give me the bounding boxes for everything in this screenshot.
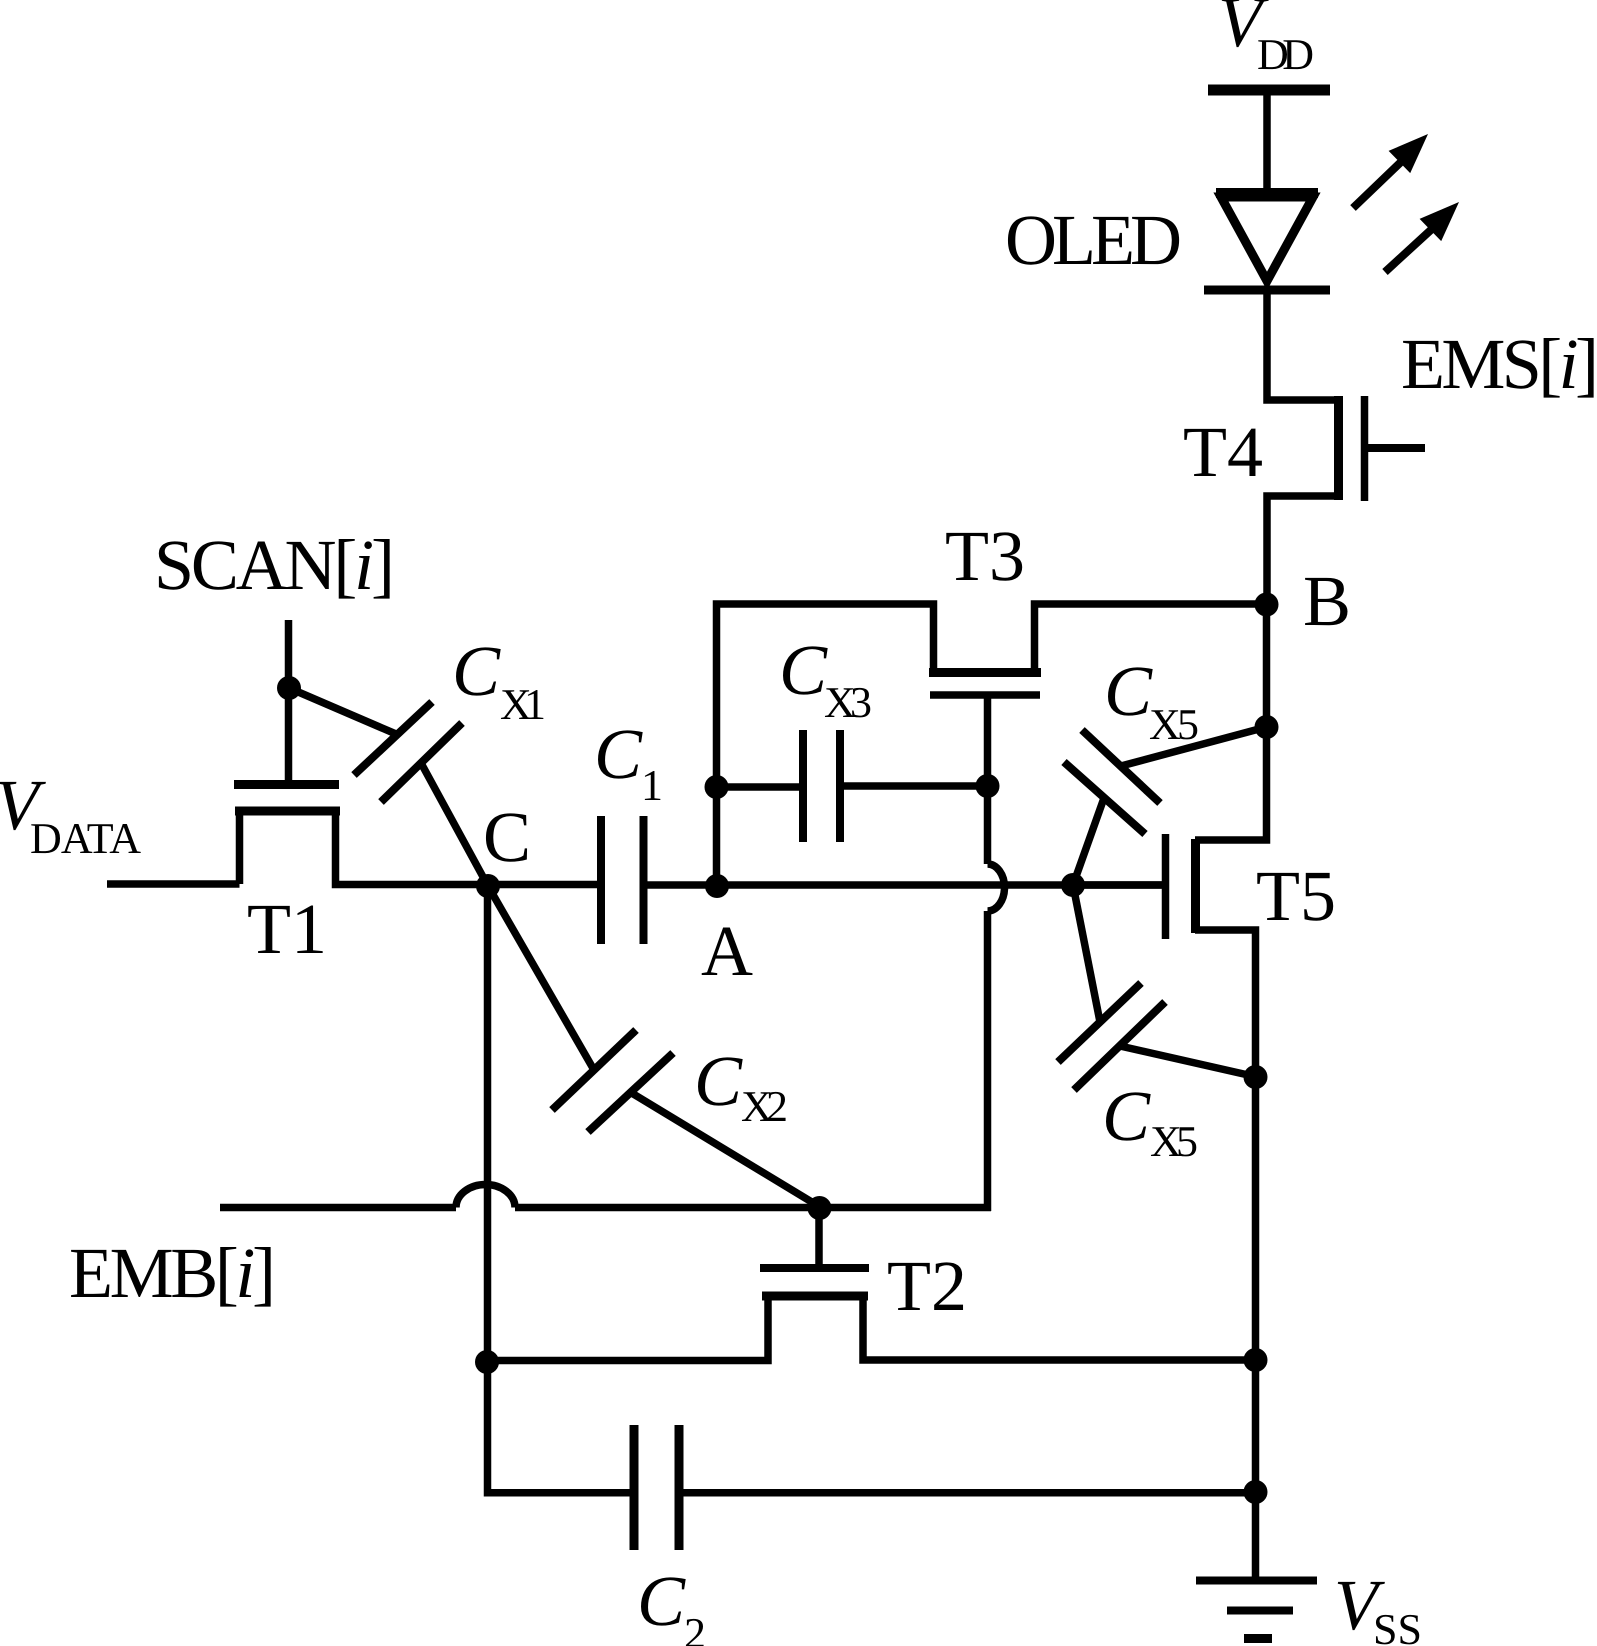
svg-text:C: C <box>694 1041 743 1121</box>
svg-text:T1: T1 <box>247 889 327 969</box>
junction dot lower CX5 tap <box>1244 1065 1268 1089</box>
capacitor CX5 lower plate 1 <box>1058 983 1141 1062</box>
svg-text:C: C <box>779 630 828 710</box>
ground symbol bottom bar <box>1244 1634 1272 1643</box>
svg-text:X5: X5 <box>1150 1117 1198 1166</box>
svg-text:T3: T3 <box>945 516 1025 596</box>
svg-text:C: C <box>637 1561 686 1641</box>
capacitor CX1 lead from SCAN dot <box>289 688 396 734</box>
light emission arrow 2 <box>1385 202 1459 272</box>
capacitor CX2 plate 1 <box>552 1030 636 1110</box>
T2 left arm wire to node C rail <box>487 1300 768 1361</box>
svg-text:X1: X1 <box>500 680 546 729</box>
capacitor CX3 left plate <box>799 730 807 842</box>
capacitor CX1 plate 1 <box>354 702 432 775</box>
CX1 lead to node C <box>421 763 488 886</box>
capacitor C2 right plate <box>675 1425 684 1550</box>
T5 gate lead <box>1073 881 1162 889</box>
T2 right arm wire to right rail <box>863 1300 1255 1360</box>
CX3 wire left <box>716 783 799 791</box>
CX5 upper label <box>1104 651 1199 749</box>
svg-text:T2: T2 <box>887 1246 967 1326</box>
CX2 label <box>694 1041 788 1131</box>
node A junction dot <box>705 874 729 898</box>
CX5 lower lead to right rail <box>1120 1046 1257 1077</box>
svg-text:C: C <box>483 797 531 877</box>
capacitor CX5 upper lead from B rail <box>1121 727 1267 766</box>
svg-text:DATA: DATA <box>30 814 141 863</box>
wire VDD to OLED anode <box>1263 95 1271 193</box>
svg-text:2: 2 <box>684 1609 706 1646</box>
transistor T4 gate bar <box>1361 396 1369 501</box>
capacitor C2 left plate <box>630 1425 639 1550</box>
wire node A up to T3 drain rail <box>717 604 934 886</box>
junction dot T2 row / rail <box>1244 1348 1268 1372</box>
T3 gate lead down with hop over bus <box>988 695 1005 1211</box>
capacitor CX3 right plate <box>836 730 844 842</box>
svg-text:SS: SS <box>1373 1605 1422 1646</box>
CX3 label <box>779 630 872 727</box>
main bus C1 to T5 gate <box>647 881 1162 889</box>
junction dot upper CX5 tap <box>1255 715 1279 739</box>
VDD power rail bar <box>1208 85 1330 96</box>
C2 label <box>637 1561 706 1646</box>
C1 label <box>594 714 663 810</box>
wire T4 source to node B <box>1267 496 1338 605</box>
CX5 lower label <box>1102 1076 1198 1166</box>
CX5 upper lead to bus dot <box>1073 798 1104 885</box>
OLED D1 triangle <box>1221 197 1313 281</box>
svg-text:A: A <box>701 911 753 991</box>
T3 source arm to node B <box>1035 604 1267 668</box>
svg-text:SCAN[i]: SCAN[i] <box>154 525 395 605</box>
svg-text:OLED: OLED <box>1005 200 1182 280</box>
junction dot CX3 left <box>705 775 729 799</box>
transistor T3 channel bar <box>929 668 1041 677</box>
svg-text:C: C <box>1102 1076 1151 1156</box>
junction dot SCAN / CX1 <box>277 676 301 700</box>
OLED D1 anode bar <box>1216 188 1318 198</box>
svg-text:T4: T4 <box>1183 412 1263 492</box>
transistor T2 channel bar <box>762 1292 868 1301</box>
svg-text:X3: X3 <box>824 678 872 727</box>
capacitor CX2 plate 2 <box>588 1053 673 1132</box>
capacitor CX5 lower plate 2 <box>1074 1002 1165 1090</box>
SCAN lead wire <box>285 620 293 781</box>
light emission arrow 1 <box>1353 134 1428 208</box>
transistor T3 gate bar <box>930 691 1040 699</box>
transistor T5 channel bar <box>1191 839 1200 933</box>
capacitor CX5 upper plate 2 <box>1064 762 1145 834</box>
junction dot T5 gate node <box>1061 873 1085 897</box>
ground symbol middle bar <box>1227 1607 1293 1615</box>
VDATA label <box>0 765 141 863</box>
svg-text:EMB[i]: EMB[i] <box>69 1233 276 1313</box>
T2 gate lead <box>815 1208 823 1264</box>
transistor T5 gate bar <box>1162 834 1170 939</box>
capacitor CX5 lower lead from bus dot <box>1073 885 1100 1022</box>
wire T5 source to right rail <box>1195 930 1256 1579</box>
CX2 lead to T2 gate node <box>630 1092 820 1207</box>
svg-text:DD: DD <box>1257 30 1314 79</box>
EMB wire with hop over node C line <box>220 1185 991 1208</box>
CX1 label <box>452 631 546 729</box>
junction dot CX3 right <box>976 774 1000 798</box>
node C junction dot <box>476 874 500 898</box>
junction dot T2 gate / CX2 <box>808 1196 832 1220</box>
svg-text:1: 1 <box>641 761 663 810</box>
svg-text:C: C <box>594 714 643 794</box>
wire OLED cathode to T4 drain <box>1267 290 1338 400</box>
capacitor CX1 plate 2 <box>381 723 462 802</box>
CX3 wire right <box>844 782 987 790</box>
svg-text:C: C <box>1104 651 1153 731</box>
junction dot T2 source tap <box>475 1350 499 1374</box>
wire node B down right rail to T5 drain <box>1195 605 1267 841</box>
capacitor CX2 lead from node C <box>488 886 594 1070</box>
svg-text:X2: X2 <box>741 1082 788 1131</box>
svg-text:X5: X5 <box>1149 700 1199 749</box>
capacitor C1 left plate <box>597 816 605 944</box>
T1 source arm <box>336 815 598 885</box>
svg-text:C: C <box>452 631 501 711</box>
junction dot C2 row / rail <box>1244 1480 1268 1504</box>
transistor T1 gate bar <box>234 780 339 789</box>
capacitor CX5 upper plate 1 <box>1082 730 1160 803</box>
capacitor C1 right plate <box>640 816 648 944</box>
transistor T4 channel bar <box>1334 396 1343 500</box>
svg-text:T5: T5 <box>1256 856 1336 936</box>
C2 wire right to rail <box>683 1489 1255 1497</box>
svg-text:EMS[i]: EMS[i] <box>1401 324 1597 404</box>
VDD label <box>1218 0 1314 79</box>
transistor T2 gate bar <box>760 1264 869 1272</box>
node B junction dot <box>1255 593 1279 617</box>
OLED D1 cathode bar <box>1204 286 1330 295</box>
VSS label <box>1334 1565 1422 1646</box>
ground symbol top bar <box>1196 1577 1317 1585</box>
T4 gate lead <box>1365 444 1425 452</box>
node C vertical rail down to C2 <box>488 886 631 1493</box>
svg-text:B: B <box>1303 561 1351 641</box>
VDATA wire to T1 drain <box>107 815 240 884</box>
transistor T1 channel bar <box>235 807 340 816</box>
